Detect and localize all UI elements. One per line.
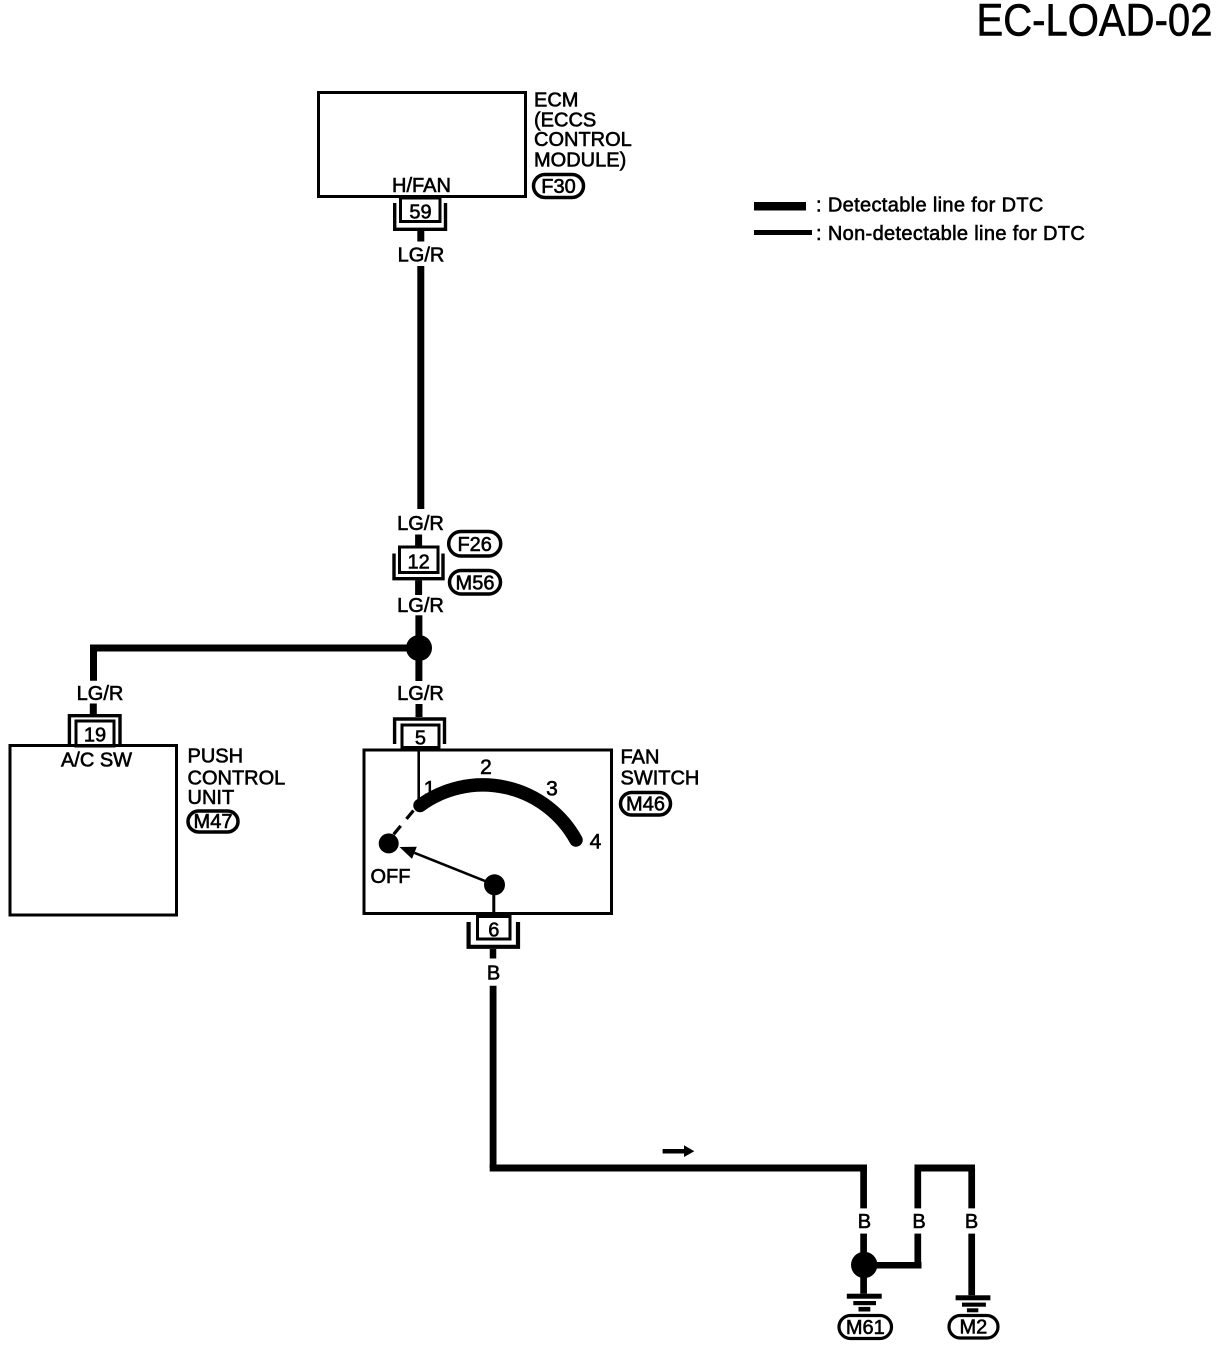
svg-text:M61: M61: [846, 1317, 885, 1339]
svg-text:B: B: [912, 1211, 925, 1233]
svg-text:LG/R: LG/R: [397, 683, 444, 705]
svg-text:2: 2: [480, 756, 492, 779]
svg-text:19: 19: [84, 725, 106, 747]
svg-text:LG/R: LG/R: [77, 683, 124, 705]
svg-text:B: B: [487, 963, 500, 985]
svg-text:M47: M47: [194, 811, 233, 833]
svg-text:FAN: FAN: [621, 746, 660, 768]
svg-text:ECM: ECM: [534, 90, 578, 112]
svg-text:A/C SW: A/C SW: [61, 750, 132, 772]
svg-text:M2: M2: [960, 1317, 988, 1339]
svg-text:5: 5: [415, 728, 426, 750]
svg-text:LG/R: LG/R: [397, 595, 444, 617]
svg-text:B: B: [858, 1211, 871, 1233]
svg-text:1: 1: [424, 778, 436, 801]
svg-text:: Non-detectable line for DTC: : Non-detectable line for DTC: [816, 223, 1085, 245]
svg-text:4: 4: [590, 831, 602, 854]
svg-text:59: 59: [409, 202, 431, 224]
svg-text:: Detectable line for DTC: : Detectable line for DTC: [816, 195, 1044, 217]
svg-text:CONTROL: CONTROL: [534, 129, 632, 151]
svg-text:M56: M56: [456, 573, 495, 595]
svg-text:H/FAN: H/FAN: [392, 175, 451, 197]
svg-text:B: B: [965, 1211, 978, 1233]
svg-text:MODULE): MODULE): [534, 150, 626, 172]
svg-text:6: 6: [488, 920, 499, 942]
svg-text:PUSH: PUSH: [188, 745, 244, 767]
svg-text:LG/R: LG/R: [398, 245, 445, 267]
svg-text:EC-LOAD-02: EC-LOAD-02: [977, 0, 1213, 46]
svg-text:M46: M46: [626, 794, 665, 816]
svg-text:F26: F26: [457, 534, 491, 556]
svg-text:SWITCH: SWITCH: [621, 767, 700, 789]
svg-text:LG/R: LG/R: [397, 513, 444, 535]
svg-text:OFF: OFF: [371, 866, 411, 888]
svg-text:F30: F30: [541, 176, 575, 198]
svg-text:12: 12: [407, 552, 429, 574]
svg-text:UNIT: UNIT: [188, 787, 235, 809]
svg-text:3: 3: [546, 778, 558, 801]
